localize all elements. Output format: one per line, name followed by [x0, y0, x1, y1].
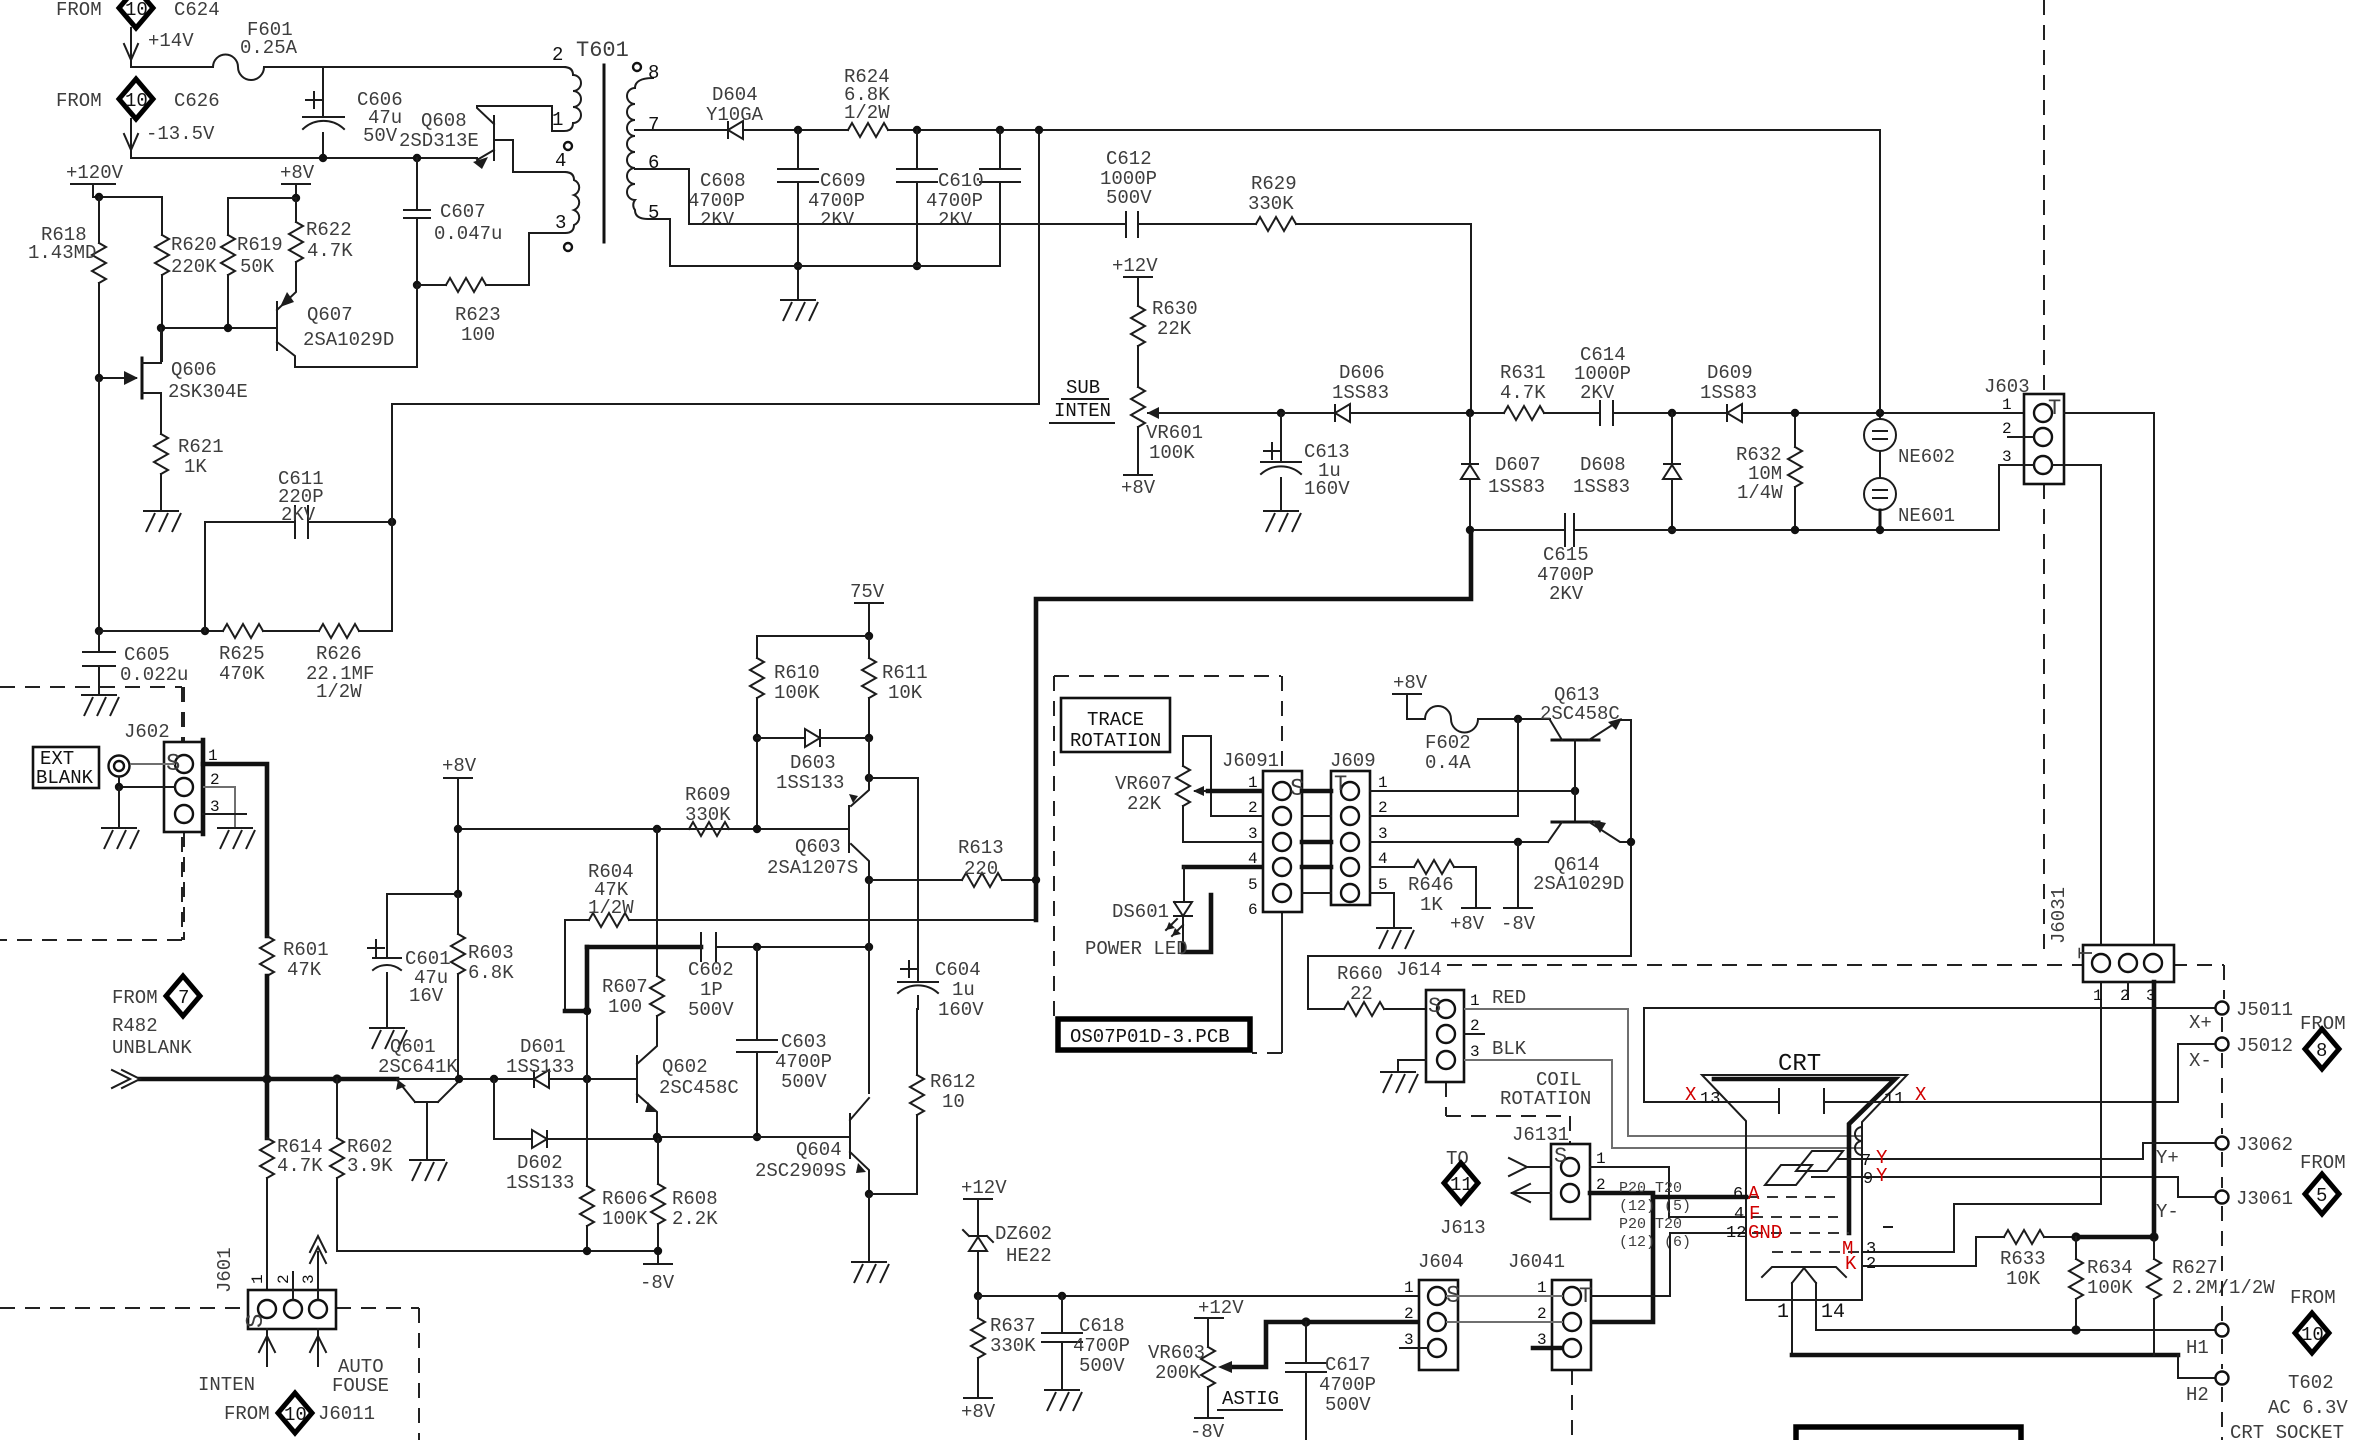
svg-text:R606: R606 [602, 1188, 648, 1210]
cathode K lead [1862, 1265, 1976, 1267]
svg-text:DZ602: DZ602 [995, 1223, 1052, 1245]
wire gate feedback rail [99, 630, 223, 632]
fuse F601 0.25A [213, 54, 264, 80]
svg-text:2: 2 [1248, 799, 1258, 817]
wire R604 to column (bold) [565, 1009, 587, 1014]
svg-text:2SC2909S: 2SC2909S [755, 1160, 846, 1182]
svg-text:R660: R660 [1337, 963, 1383, 985]
lamp NE602 [1879, 413, 1881, 419]
resistor R610 100K [750, 658, 764, 698]
svg-text:2SD313E: 2SD313E [399, 130, 479, 152]
svg-text:500V: 500V [688, 999, 734, 1021]
T601 core [603, 65, 606, 242]
svg-text:1SS83: 1SS83 [1488, 476, 1545, 498]
svg-text:5: 5 [2316, 1185, 2327, 1207]
svg-text:J3062: J3062 [2236, 1134, 2293, 1156]
svg-text:D608: D608 [1580, 454, 1626, 476]
svg-text:X: X [1685, 1084, 1697, 1106]
node R618 top [95, 193, 103, 201]
node R633/R634 [2071, 1232, 2080, 1241]
svg-text:C612: C612 [1106, 148, 1152, 170]
node unblank/R614 [262, 1074, 271, 1083]
wire output loop bottom [1308, 956, 1631, 1009]
svg-text:R629: R629 [1251, 173, 1297, 195]
svg-text:J609: J609 [1330, 750, 1376, 772]
wire X+ line [1644, 1007, 2214, 1009]
wire Q603/Q604 collector column [868, 880, 870, 1093]
svg-text:200K: 200K [1155, 1362, 1201, 1384]
svg-text:J6041: J6041 [1508, 1251, 1565, 1273]
T601 phase dot lower [564, 243, 572, 251]
svg-text:1/2W: 1/2W [844, 102, 890, 124]
wire J609 pin3 line [1370, 841, 1548, 843]
resistor R609 330K [689, 822, 729, 836]
svg-text:R612: R612 [930, 1071, 976, 1093]
wire heater H2 line (bold) [1792, 1353, 2178, 1358]
wire -13.5V rail [131, 150, 477, 158]
svg-text:5: 5 [1378, 876, 1388, 894]
svg-text:R630: R630 [1152, 298, 1198, 320]
resistor R631 4.7K [1504, 406, 1544, 420]
diode D609 1SS83 [1727, 404, 1742, 422]
svg-text:4: 4 [1378, 850, 1388, 868]
svg-text:R610: R610 [774, 662, 820, 684]
wire J603 pin3 right to J6031 pin1 [2052, 465, 2101, 945]
svg-text:100: 100 [461, 324, 495, 346]
node C609 top [913, 126, 921, 134]
svg-text:-8V: -8V [1501, 913, 1536, 935]
wire GND lead to J6041 pin1 [1591, 1233, 1670, 1296]
resistor R612 10 [916, 1009, 918, 1075]
polarity tick [1884, 1226, 1892, 1228]
svg-text:T: T [1334, 772, 1347, 797]
svg-text:1/2W: 1/2W [316, 681, 362, 703]
svg-text:100K: 100K [774, 682, 820, 704]
node R613 right [1032, 876, 1040, 884]
svg-text:75V: 75V [850, 581, 885, 603]
transistor Q607 2SA1029D [276, 302, 278, 350]
svg-text:3: 3 [1248, 825, 1258, 843]
resistor R634 100K [2075, 1237, 2077, 1259]
node C611 left leg [201, 627, 209, 635]
T601 primary winding 4-3 [529, 172, 579, 233]
socket pin J3061 [2216, 1191, 2229, 1204]
svg-text:X-: X- [2189, 1050, 2212, 1072]
svg-text:UNBLANK: UNBLANK [112, 1037, 192, 1059]
svg-text:1/2W: 1/2W [588, 897, 634, 919]
svg-text:+8V: +8V [280, 162, 315, 184]
resistor R620 220K [161, 197, 163, 235]
dashed CRT socket line [2221, 1017, 2223, 1440]
diode D601 1SS133 [534, 1070, 549, 1088]
svg-text:+8V: +8V [1450, 913, 1485, 935]
resistor R637 330K [977, 1296, 979, 1318]
svg-text:C626: C626 [174, 90, 220, 112]
svg-text:10: 10 [125, 90, 148, 112]
svg-text:2.2K: 2.2K [672, 1208, 718, 1230]
svg-text:2SA1029D: 2SA1029D [303, 329, 394, 351]
transistor Q613 2SC458C [1552, 739, 1599, 742]
wire Y- jog [2178, 1177, 2214, 1197]
svg-text:C609: C609 [820, 170, 866, 192]
svg-text:10K: 10K [2006, 1268, 2041, 1290]
svg-text:D604: D604 [712, 84, 758, 106]
diode D604 Y10GA [728, 121, 743, 139]
svg-text:T601: T601 [576, 38, 629, 63]
svg-text:+12V: +12V [1112, 255, 1158, 277]
svg-text:1K: 1K [184, 456, 207, 478]
svg-text:4: 4 [1734, 1205, 1744, 1224]
capacitor C617 4700P 500V [1305, 1322, 1307, 1363]
svg-text:C603: C603 [781, 1031, 827, 1053]
node base rail mid [224, 324, 232, 332]
svg-text:8: 8 [648, 62, 659, 84]
svg-text:1: 1 [1378, 774, 1388, 792]
svg-text:R621: R621 [178, 436, 224, 458]
BNC jack [109, 756, 130, 777]
node Q603 collector [865, 876, 873, 884]
T601 secondary winding 8-7-6-5 [627, 78, 655, 219]
svg-text:VR603: VR603 [1148, 1342, 1205, 1364]
resistor R646 1K [1370, 866, 1414, 868]
capacitor C613 1u 160V [1280, 413, 1282, 462]
svg-text:13: 13 [1700, 1090, 1720, 1109]
capacitor C609 4700P 2KV [916, 130, 918, 169]
svg-text:FROM: FROM [224, 1403, 270, 1425]
svg-text:1: 1 [249, 1274, 267, 1284]
svg-text:C610: C610 [938, 170, 984, 192]
svg-text:22: 22 [1350, 983, 1373, 1005]
svg-text:R619: R619 [237, 234, 283, 256]
resistor R608 2.2K [657, 1139, 659, 1184]
svg-text:Q602: Q602 [662, 1056, 708, 1078]
svg-text:NE602: NE602 [1898, 446, 1955, 468]
node base rail left [157, 324, 165, 332]
resistor R613 220 [869, 879, 962, 881]
svg-text:4.7K: 4.7K [277, 1155, 323, 1177]
svg-text:500V: 500V [1106, 187, 1152, 209]
wire J603 pin1 right to J6031 pin3 [2064, 413, 2154, 945]
svg-text:J604: J604 [1418, 1251, 1464, 1273]
wire Y+ jog [2143, 1143, 2214, 1159]
svg-text:C604: C604 [935, 959, 981, 981]
wire vertical from top row [1879, 130, 1881, 413]
node Q603 collector coupling [865, 943, 873, 951]
resistor R630 22K [1131, 306, 1145, 346]
svg-text:(12) (5): (12) (5) [1619, 1198, 1691, 1215]
svg-text:2: 2 [1537, 1305, 1547, 1323]
wire J603 pin2 stub [2008, 436, 2034, 438]
diode D607 1SS83 (vertical) [1469, 413, 1471, 464]
svg-text:X+: X+ [2189, 1012, 2212, 1034]
potentiometer VR607 22K [1182, 736, 1184, 766]
node R627 top [2149, 1232, 2158, 1241]
wire J6131 pin2 out-arrow [1512, 1192, 1551, 1194]
wire R633 to bold column [2076, 1235, 2154, 1240]
svg-text:Q606: Q606 [171, 359, 217, 381]
capacitor C607 0.047u [416, 158, 418, 210]
node D603 left [753, 734, 761, 742]
resistor R629 330K [1256, 217, 1296, 231]
svg-text:6: 6 [648, 152, 659, 174]
svg-text:1: 1 [2093, 987, 2103, 1005]
svg-text:+12V: +12V [961, 1177, 1007, 1199]
svg-text:+8V: +8V [442, 755, 477, 777]
node C601/R603 top [454, 890, 462, 898]
node feedback tap [1035, 126, 1043, 134]
wire J614 pin2 stub [1464, 1033, 1484, 1035]
pin 13 lead [1644, 1101, 1779, 1103]
resistor R618 1.43MD [98, 197, 100, 243]
wire R618 column [98, 378, 100, 631]
node unblank/R602 [332, 1074, 341, 1083]
grid F electrode [1752, 1216, 1838, 1218]
wire J6131 pin1 to CRT F [1590, 1167, 1669, 1217]
svg-text:1: 1 [1596, 1150, 1606, 1168]
transistor Q602 2SC458C [636, 1056, 638, 1102]
capacitor C610 4700P 2KV [999, 130, 1001, 169]
svg-text:10: 10 [2301, 1324, 2324, 1346]
node D602 right [654, 1135, 662, 1143]
grid GND electrode [1752, 1232, 1849, 1234]
svg-text:+8V: +8V [961, 1401, 996, 1423]
svg-text:1u: 1u [952, 979, 975, 1001]
node 75V junction [865, 632, 873, 640]
node C607/R623 junction [413, 281, 421, 289]
T601 primary winding 2-1 [552, 67, 581, 131]
svg-text:1P: 1P [700, 979, 723, 1001]
capacitor C614 1000P 2KV [1600, 401, 1613, 425]
svg-text:2KV: 2KV [281, 504, 316, 526]
svg-text:INTEN: INTEN [198, 1374, 255, 1396]
svg-text:330K: 330K [990, 1335, 1036, 1357]
node D601/Q602 base [583, 1075, 591, 1083]
wire Q604 base line [658, 1136, 850, 1138]
svg-text:5: 5 [648, 202, 659, 224]
wire heater H1 line [1816, 1329, 2214, 1331]
wire J603 pin3 left jog [1999, 465, 2034, 530]
svg-text:2SK304E: 2SK304E [168, 381, 248, 403]
wire Q613/Q614 right column [1630, 720, 1632, 956]
svg-text:2: 2 [1378, 799, 1388, 817]
node C610 top [996, 126, 1004, 134]
power -8V stub [1517, 842, 1519, 908]
svg-text:R625: R625 [219, 643, 265, 665]
svg-text:2.2M/1/2W: 2.2M/1/2W [2172, 1277, 2275, 1299]
capacitor C608 4700P 2KV [797, 130, 799, 169]
svg-text:330K: 330K [685, 804, 731, 826]
svg-text:1.43MD: 1.43MD [28, 242, 96, 264]
svg-text:C618: C618 [1079, 1315, 1125, 1337]
node C617 tap [1301, 1317, 1310, 1326]
wire emitter link to C604 [869, 738, 918, 778]
svg-text:R620: R620 [171, 234, 217, 256]
power +8V under R637 [964, 1397, 992, 1399]
svg-text:D601: D601 [520, 1036, 566, 1058]
wire Q607 collector loop [416, 285, 418, 367]
transistor Q608 2SD313E [493, 116, 495, 160]
wire J601 pin1 down arrow [266, 1329, 268, 1366]
svg-text:50K: 50K [240, 256, 275, 278]
svg-text:AC 6.3V: AC 6.3V [2268, 1397, 2348, 1419]
svg-text:3: 3 [1404, 1331, 1414, 1349]
svg-text:1: 1 [552, 109, 563, 131]
wire VR607 top to pin2 [1183, 736, 1263, 816]
svg-text:Q601: Q601 [390, 1036, 436, 1058]
svg-text:11: 11 [1450, 1174, 1473, 1196]
svg-text:R603: R603 [468, 942, 514, 964]
wire VR607 wiper to pin1 [1195, 790, 1208, 792]
svg-text:NE601: NE601 [1898, 505, 1955, 527]
svg-text:C617: C617 [1325, 1354, 1371, 1376]
svg-text:FROM: FROM [112, 987, 158, 1009]
svg-text:+120V: +120V [66, 162, 124, 184]
node D607 top [1466, 409, 1474, 417]
svg-text:4700P: 4700P [775, 1051, 832, 1073]
svg-text:1SS133: 1SS133 [506, 1172, 574, 1194]
wire 75V rail [757, 635, 869, 637]
svg-text:2: 2 [1470, 1017, 1480, 1035]
ground under C613 [1263, 511, 1301, 532]
svg-text:-13.5V: -13.5V [146, 123, 215, 145]
power +8V under VR601 [1124, 474, 1152, 476]
capacitor C615 4700P 2KV [1565, 514, 1574, 546]
wire M to J6031 pin1 [1954, 982, 2101, 1252]
wire T601 pin7 out [635, 129, 728, 131]
svg-text:CRT: CRT [1778, 1051, 1821, 1078]
resistor R621 1K [154, 434, 168, 474]
svg-text:6: 6 [1248, 901, 1258, 919]
svg-text:500V: 500V [1079, 1355, 1125, 1377]
label TRACE ROTATION [1061, 698, 1170, 752]
svg-text:2: 2 [1404, 1305, 1414, 1323]
svg-text:22K: 22K [1127, 793, 1162, 815]
svg-text:J602: J602 [124, 721, 170, 743]
ground right of J602 [217, 828, 255, 849]
wire J609 pin5 to ground [1370, 893, 1394, 928]
wire pin2 to ground [203, 787, 235, 828]
svg-text:BLANK: BLANK [36, 767, 94, 789]
svg-text:1SS133: 1SS133 [776, 772, 844, 794]
svg-text:3: 3 [555, 212, 566, 234]
wire +120V rail [93, 196, 162, 198]
wire J6041 pin3 stub [1533, 1346, 1561, 1351]
node C609 bottom [913, 262, 921, 270]
wire BNC shield to pin2 [119, 777, 175, 787]
svg-text:1SS133: 1SS133 [506, 1056, 574, 1078]
ground under C618 [1044, 1390, 1082, 1411]
resistor R604 47K 1/2W [589, 913, 629, 927]
transistor Q614 2SA1029D [1552, 821, 1599, 824]
node C603 bottom [753, 1133, 761, 1141]
svg-text:+12V: +12V [1198, 1297, 1244, 1319]
svg-text:H1: H1 [2186, 1337, 2209, 1359]
T601 phase dot upper [564, 142, 572, 150]
svg-text:R608: R608 [672, 1188, 718, 1210]
wire +14V feed [131, 60, 213, 67]
svg-text:2SA1029D: 2SA1029D [1533, 873, 1624, 895]
svg-text:7: 7 [648, 114, 659, 136]
wire T601 pin5 rail [655, 219, 1000, 266]
wire C602 node column [585, 947, 590, 1011]
resistor R632 10M 1/4W [1794, 413, 1796, 447]
svg-text:R482: R482 [112, 1015, 158, 1037]
node J609 pin2 rail [1514, 715, 1522, 723]
resistor R614 4.7K [265, 1079, 270, 1138]
capacitor C618 4700P 500V [1061, 1296, 1063, 1333]
svg-text:1/4W: 1/4W [1737, 482, 1783, 504]
svg-text:H2: H2 [2186, 1384, 2209, 1406]
ground under C608 [780, 300, 818, 321]
wire pin3 stub [203, 813, 246, 815]
svg-text:2KV: 2KV [1580, 382, 1615, 404]
svg-text:100K: 100K [1149, 442, 1195, 464]
node D607 bottom [1466, 526, 1474, 534]
resistor R611 10K [862, 658, 876, 698]
svg-text:J3061: J3061 [2236, 1188, 2293, 1210]
svg-text:2KV: 2KV [938, 209, 973, 231]
wire RED coil lead [1464, 1009, 1862, 1136]
svg-text:T602: T602 [2288, 1372, 2334, 1394]
svg-text:4700P: 4700P [1073, 1335, 1130, 1357]
svg-text:100K: 100K [2087, 1277, 2133, 1299]
svg-text:FROM: FROM [56, 90, 102, 112]
svg-text:3: 3 [1378, 825, 1388, 843]
capacitor C604 1u 160V [917, 778, 919, 982]
svg-text:FROM: FROM [2290, 1287, 2336, 1309]
resistor R626 22.1MF 1/2W [319, 624, 359, 638]
svg-text:2: 2 [552, 44, 563, 66]
power +8V stub [1462, 907, 1490, 909]
svg-text:2: 2 [2002, 420, 2012, 438]
svg-text:2KV: 2KV [1549, 583, 1584, 605]
wire emitter to R612 [869, 1115, 917, 1194]
ground under C601 [369, 1028, 407, 1049]
svg-text:-8V: -8V [1190, 1421, 1225, 1440]
socket pin J3062 [2216, 1137, 2229, 1150]
label EXT BLANK [33, 747, 99, 788]
wire emitter to ground [868, 1194, 870, 1262]
svg-text:GND: GND [1748, 1222, 1782, 1244]
CRT funnel outline [1702, 1075, 1907, 1300]
wire J6131 pin1 in-arrow [1527, 1166, 1551, 1168]
ground under Q601 [409, 1160, 447, 1181]
svg-text:R631: R631 [1500, 362, 1546, 384]
svg-text:0.25A: 0.25A [240, 37, 298, 59]
svg-text:3.9K: 3.9K [347, 1155, 393, 1177]
svg-text:J614: J614 [1396, 959, 1442, 981]
svg-text:Q608: Q608 [421, 110, 467, 132]
transistor Q606 2SK304E [141, 358, 144, 398]
node R607 top [653, 825, 661, 833]
socket pin J5011 [2216, 1002, 2229, 1015]
svg-text:R611: R611 [882, 662, 928, 684]
svg-text:330K: 330K [1248, 193, 1294, 215]
capacitor C611 220P 2KV [205, 522, 295, 631]
svg-text:+8V: +8V [1121, 477, 1156, 499]
svg-text:HE22: HE22 [1006, 1245, 1052, 1267]
wire mating links [1302, 791, 1331, 867]
svg-text:100K: 100K [602, 1208, 648, 1230]
wire J601 pin3 up arrow [317, 1252, 319, 1300]
svg-text:0.047u: 0.047u [434, 223, 502, 245]
wire F602 to Q613 [1478, 718, 1550, 720]
svg-text:CRT SOCKET: CRT SOCKET [2230, 1422, 2344, 1440]
wire BLK coil lead [1464, 1060, 1862, 1148]
svg-text:47K: 47K [287, 959, 322, 981]
node C608 top [794, 126, 802, 134]
svg-text:220: 220 [964, 858, 998, 880]
